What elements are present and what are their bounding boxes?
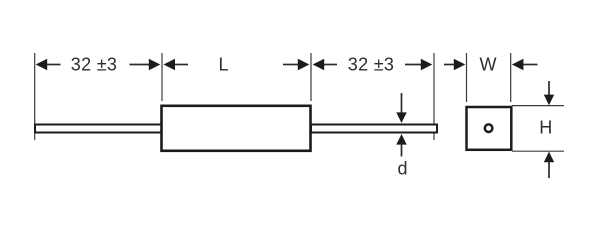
end view lead hole xyxy=(485,124,493,132)
dimension H: top extension line xyxy=(512,105,564,107)
resistor body xyxy=(162,106,311,151)
dimension W: outside tail right xyxy=(523,64,538,66)
svg-text:H: H xyxy=(539,117,552,137)
extension line body right xyxy=(310,53,312,101)
extension line W left xyxy=(466,53,468,102)
dimension H: upper arrow stem xyxy=(548,81,550,96)
dimension d: upper arrowhead xyxy=(396,112,406,123)
extension line body left xyxy=(161,53,163,101)
end view square body xyxy=(467,107,512,150)
dimension L: tail left xyxy=(175,64,189,66)
dimension 32±3 right: tail right xyxy=(405,64,422,66)
dimension d: lower arrowhead xyxy=(396,134,406,145)
dimension L: arrow right xyxy=(298,59,310,71)
dimension L: tail right xyxy=(283,64,298,66)
dimension 32±3 left: arrow left xyxy=(36,59,48,71)
extension line left lead end xyxy=(34,53,36,140)
dimension W: outside tail left xyxy=(444,64,456,66)
dimension W: arrow pointing left xyxy=(512,59,524,71)
extension line W right xyxy=(510,53,512,102)
dimension H: upper arrowhead xyxy=(544,95,554,106)
dimension 32±3 right: arrow left xyxy=(313,59,325,71)
right lead wire xyxy=(311,125,437,133)
svg-text:32 ±3: 32 ±3 xyxy=(348,55,394,75)
dimension L: arrow left xyxy=(164,59,176,71)
dimension 32±3 right: arrow right xyxy=(421,59,433,71)
svg-text:32 ±3: 32 ±3 xyxy=(71,55,117,75)
svg-text:W: W xyxy=(480,54,497,74)
dimension 32±3 right: tail left xyxy=(324,64,337,66)
dimension d: lower arrow stem xyxy=(401,145,403,157)
svg-text:d: d xyxy=(397,158,407,178)
dimension 32±3 left: tail right xyxy=(130,64,150,66)
dimension W: arrow pointing right xyxy=(454,59,466,71)
dimension H: bottom extension line xyxy=(512,150,564,152)
dimension 32±3 left: arrow right xyxy=(149,59,161,71)
left lead wire xyxy=(35,125,162,133)
dimension H: lower arrow stem xyxy=(548,162,550,178)
dimension d: upper arrow stem xyxy=(401,93,403,114)
dimension 32±3 left: tail left xyxy=(47,64,61,66)
dimension H: lower arrowhead xyxy=(544,152,554,163)
extension line right lead end xyxy=(433,53,435,140)
svg-text:L: L xyxy=(218,54,228,74)
